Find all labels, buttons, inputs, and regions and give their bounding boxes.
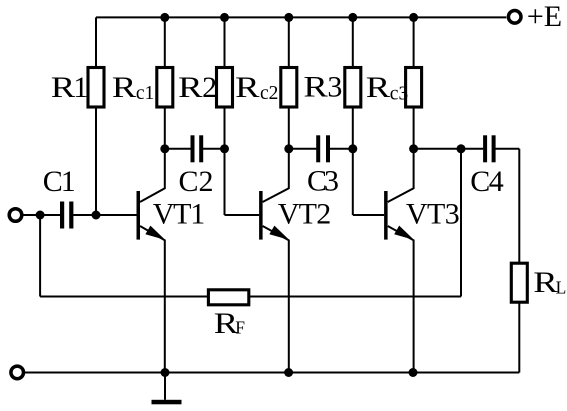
resistor RL — [511, 263, 527, 302]
wire feedback left vertical — [39, 215, 41, 297]
junction node Rc3-top — [409, 13, 418, 22]
svg-text:R: R — [51, 71, 76, 104]
junction node Rc2-top — [284, 13, 293, 22]
svg-text:R: R — [235, 71, 260, 104]
svg-text:C4: C4 — [470, 165, 504, 198]
wire ground stub — [164, 373, 166, 400]
junction node feedback-C4 — [457, 144, 466, 153]
svg-text:c3: c3 — [390, 84, 408, 105]
junction node VT3e-bottom — [409, 368, 418, 377]
transistor VT3 emitter arrow — [394, 226, 414, 240]
wire Rc3 branch vertical — [413, 17, 415, 148]
capacitor C2 plates — [191, 135, 195, 162]
resistor R1 — [88, 68, 104, 108]
wire R3 branch vertical — [352, 17, 354, 215]
wire VT1 collector — [140, 149, 165, 202]
junction node R3-top — [348, 13, 357, 22]
wire VT3 base line — [353, 214, 384, 216]
resistor R3 — [345, 68, 361, 108]
transistor VT1 emitter arrow — [145, 226, 165, 240]
wire RL branch — [518, 149, 520, 373]
svg-text:F: F — [235, 318, 245, 338]
junction node Rc2-C3 — [284, 144, 293, 153]
resistor R2 — [217, 68, 233, 108]
resistor Rc2 — [281, 68, 297, 108]
resistor RF — [208, 290, 248, 305]
junction node Rc1-top — [160, 13, 169, 22]
svg-text:+E: +E — [527, 0, 562, 33]
junction node Rc1-C2 — [160, 144, 169, 153]
svg-text:c1: c1 — [136, 83, 154, 104]
transistor VT3 base bar — [384, 191, 388, 240]
wire top rail — [96, 16, 506, 18]
capacitor C4 plates — [483, 135, 487, 162]
svg-text:R: R — [303, 71, 328, 104]
wire Rc2 branch vertical — [288, 17, 290, 148]
svg-text:R: R — [533, 266, 558, 299]
wire bottom rail — [25, 372, 519, 374]
wire input line — [24, 214, 137, 216]
wire VT2 collector — [263, 149, 289, 202]
svg-text:VT1: VT1 — [153, 198, 206, 231]
svg-text:R: R — [366, 71, 391, 104]
svg-text:R: R — [178, 71, 203, 104]
junction node R1-input — [92, 211, 101, 220]
svg-text:1: 1 — [73, 71, 88, 104]
svg-text:C3: C3 — [307, 165, 339, 198]
capacitor C3 plates — [316, 135, 320, 162]
resistor Rc3 — [406, 68, 422, 108]
wire feedback right vertical — [460, 149, 462, 297]
transistor VT2 base bar — [259, 191, 263, 240]
svg-text:2: 2 — [202, 71, 217, 104]
terminal +E — [508, 10, 521, 23]
junction node input-feedback — [36, 211, 45, 220]
svg-text:R: R — [112, 71, 137, 104]
wire R1 branch vertical — [95, 17, 97, 215]
svg-text:VT2: VT2 — [278, 198, 332, 231]
resistor Rc1 — [157, 68, 173, 108]
junction node R2-C2 — [220, 144, 229, 153]
wire VT1 emitter — [140, 226, 165, 373]
wire C2 row — [165, 148, 225, 150]
svg-text:VT3: VT3 — [406, 198, 460, 231]
wire Rc1 branch vertical — [164, 17, 166, 148]
wire VT3 collector — [388, 149, 414, 202]
transistor VT2 emitter arrow — [269, 226, 289, 240]
svg-text:3: 3 — [327, 71, 342, 104]
wire VT3 emitter — [388, 226, 414, 373]
junction node VT1e-ground — [161, 368, 170, 377]
junction node VT2e-bottom — [284, 368, 293, 377]
terminal input — [9, 209, 22, 222]
wire C4 row — [414, 148, 520, 150]
wire VT2 emitter — [263, 226, 289, 373]
transistor VT1 base bar — [137, 191, 141, 240]
wire R2 branch vertical — [224, 17, 226, 215]
junction node R2-top — [220, 13, 229, 22]
capacitor C1 plates — [60, 202, 64, 229]
junction node Rc3-C4 — [409, 144, 418, 153]
ground bar — [152, 400, 182, 405]
junction node R3-C3 — [348, 144, 357, 153]
wire C3 row — [289, 148, 353, 150]
svg-text:C1: C1 — [43, 165, 76, 198]
wire feedback horizontal — [40, 296, 461, 298]
terminal bottom-left — [11, 366, 24, 379]
svg-text:c2: c2 — [260, 83, 278, 104]
wire VT2 base line — [225, 214, 260, 216]
svg-text:C2: C2 — [179, 165, 214, 198]
svg-text:L: L — [556, 278, 567, 298]
